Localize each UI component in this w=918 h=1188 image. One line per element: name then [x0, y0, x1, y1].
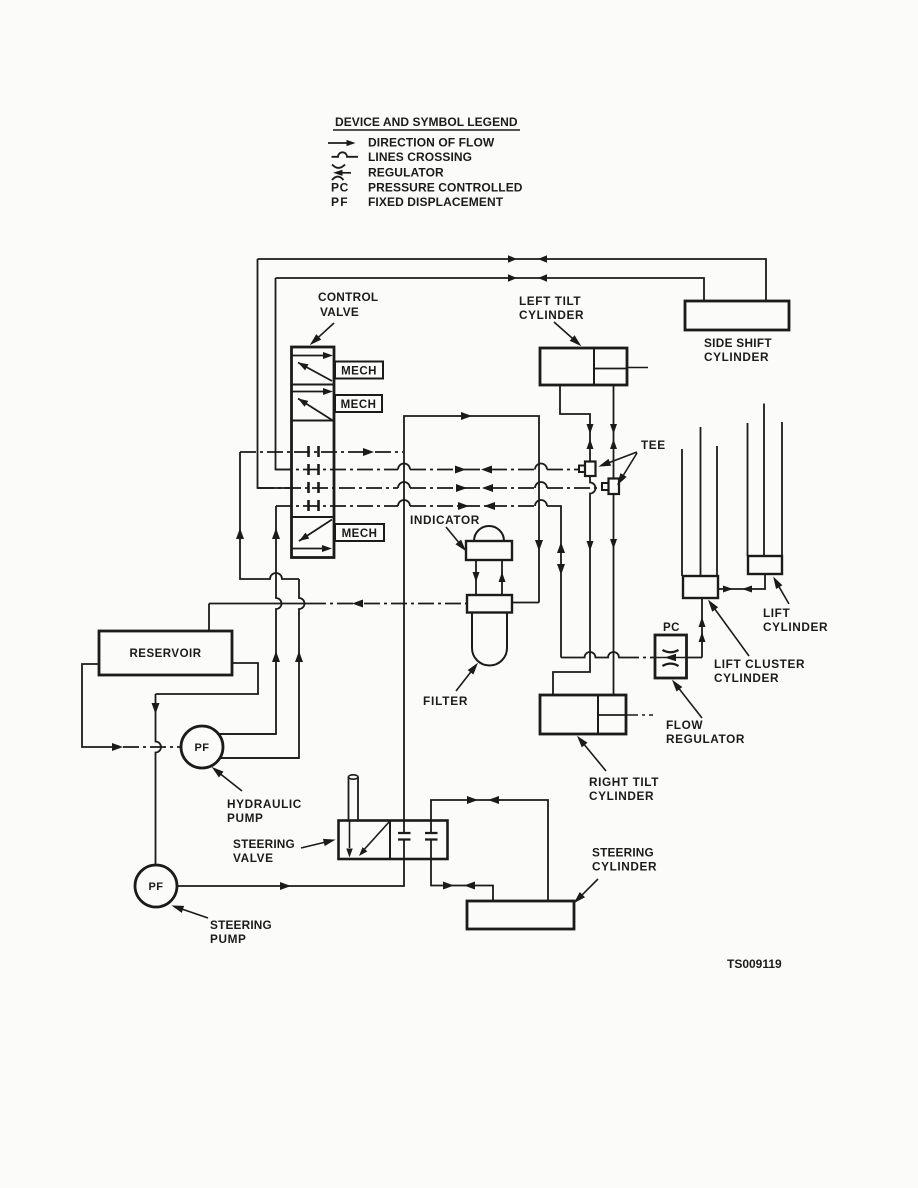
svg-text:CYLINDER: CYLINDER — [704, 350, 769, 364]
svg-text:LIFT CLUSTER: LIFT CLUSTER — [714, 657, 805, 671]
svg-text:REGULATOR: REGULATOR — [368, 166, 444, 180]
svg-text:CYLINDER: CYLINDER — [519, 308, 584, 322]
svg-text:PC: PC — [663, 622, 680, 634]
svg-text:LIFT: LIFT — [763, 606, 790, 620]
svg-text:STEERING: STEERING — [233, 837, 295, 851]
svg-text:DIRECTION OF FLOW: DIRECTION OF FLOW — [368, 136, 495, 150]
svg-text:PF: PF — [331, 195, 349, 209]
svg-text:VALVE: VALVE — [233, 851, 274, 865]
svg-text:FILTER: FILTER — [423, 694, 468, 708]
svg-text:RESERVOIR: RESERVOIR — [129, 648, 201, 660]
svg-text:LEFT TILT: LEFT TILT — [519, 294, 581, 308]
svg-text:DEVICE AND SYMBOL LEGEND: DEVICE AND SYMBOL LEGEND — [335, 115, 518, 129]
svg-text:LINES CROSSING: LINES CROSSING — [368, 150, 472, 164]
svg-text:SIDE SHIFT: SIDE SHIFT — [704, 336, 772, 350]
svg-text:FIXED DISPLACEMENT: FIXED DISPLACEMENT — [368, 195, 504, 209]
svg-text:MECH: MECH — [341, 366, 377, 378]
svg-text:VALVE: VALVE — [320, 305, 359, 319]
svg-text:CYLINDER: CYLINDER — [714, 671, 779, 685]
svg-text:CYLINDER: CYLINDER — [592, 860, 657, 874]
svg-text:TEE: TEE — [641, 438, 666, 452]
svg-text:PUMP: PUMP — [210, 932, 246, 946]
svg-text:PF: PF — [194, 742, 209, 754]
svg-text:MECH: MECH — [342, 528, 378, 540]
svg-text:CONTROL: CONTROL — [318, 290, 378, 304]
svg-text:STEERING: STEERING — [592, 846, 654, 860]
svg-text:CYLINDER: CYLINDER — [763, 620, 828, 634]
svg-text:STEERING: STEERING — [210, 918, 272, 932]
svg-text:INDICATOR: INDICATOR — [410, 513, 480, 527]
svg-text:TS009119: TS009119 — [727, 957, 782, 971]
svg-text:FLOW: FLOW — [666, 718, 703, 732]
svg-text:HYDRAULIC: HYDRAULIC — [227, 797, 302, 811]
svg-text:MECH: MECH — [341, 399, 377, 411]
svg-text:PUMP: PUMP — [227, 811, 263, 825]
svg-text:RIGHT TILT: RIGHT TILT — [589, 775, 659, 789]
svg-text:PRESSURE CONTROLLED: PRESSURE CONTROLLED — [368, 181, 523, 195]
svg-text:PF: PF — [148, 881, 163, 893]
svg-text:REGULATOR: REGULATOR — [666, 732, 745, 746]
svg-text:PC: PC — [331, 181, 349, 195]
svg-text:CYLINDER: CYLINDER — [589, 789, 654, 803]
